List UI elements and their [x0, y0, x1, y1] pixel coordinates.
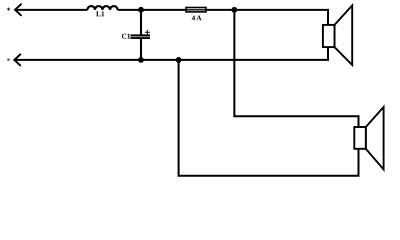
speaker LS2 body — [354, 127, 366, 149]
speaker LS1 body — [323, 25, 335, 47]
wire: C1 bottom plate to node C — [140, 38, 142, 60]
speaker LS2 cone — [366, 107, 384, 169]
wire: L1 to fuse — [118, 9, 186, 11]
wire: fuse to speaker LS1 top pin — [206, 10, 328, 25]
label C1 — [122, 34, 130, 39]
wire: + terminal to L1 — [15, 9, 87, 11]
speaker LS1 cone — [335, 6, 353, 66]
+ terminal label — [7, 8, 10, 11]
wire: node D down and across to speaker LS2 bottom pin — [179, 60, 359, 176]
wire: node B down and across to speaker LS2 top pin — [234, 10, 358, 127]
capacitor C1 top plate — [131, 34, 151, 36]
node C junction dot (bottom of C1) — [138, 57, 144, 63]
label 4 A — [192, 15, 202, 20]
wire: - terminal to speaker LS1 bottom pin — [15, 47, 328, 60]
wire: node A down to C1 top plate — [140, 10, 142, 36]
C1 polarity + mark — [145, 30, 150, 35]
label L1 — [96, 11, 104, 16]
node A junction dot (top of C1) — [138, 7, 144, 13]
input arrow (positive terminal) — [15, 4, 21, 15]
- terminal label — [7, 59, 10, 61]
input arrow (negative terminal) — [14, 54, 20, 65]
capacitor C1 bottom plate — [131, 37, 151, 39]
inductor L1 — [87, 6, 117, 10]
node B junction dot — [231, 7, 237, 13]
node D junction dot — [176, 57, 182, 63]
fuse F1 — [186, 8, 206, 12]
